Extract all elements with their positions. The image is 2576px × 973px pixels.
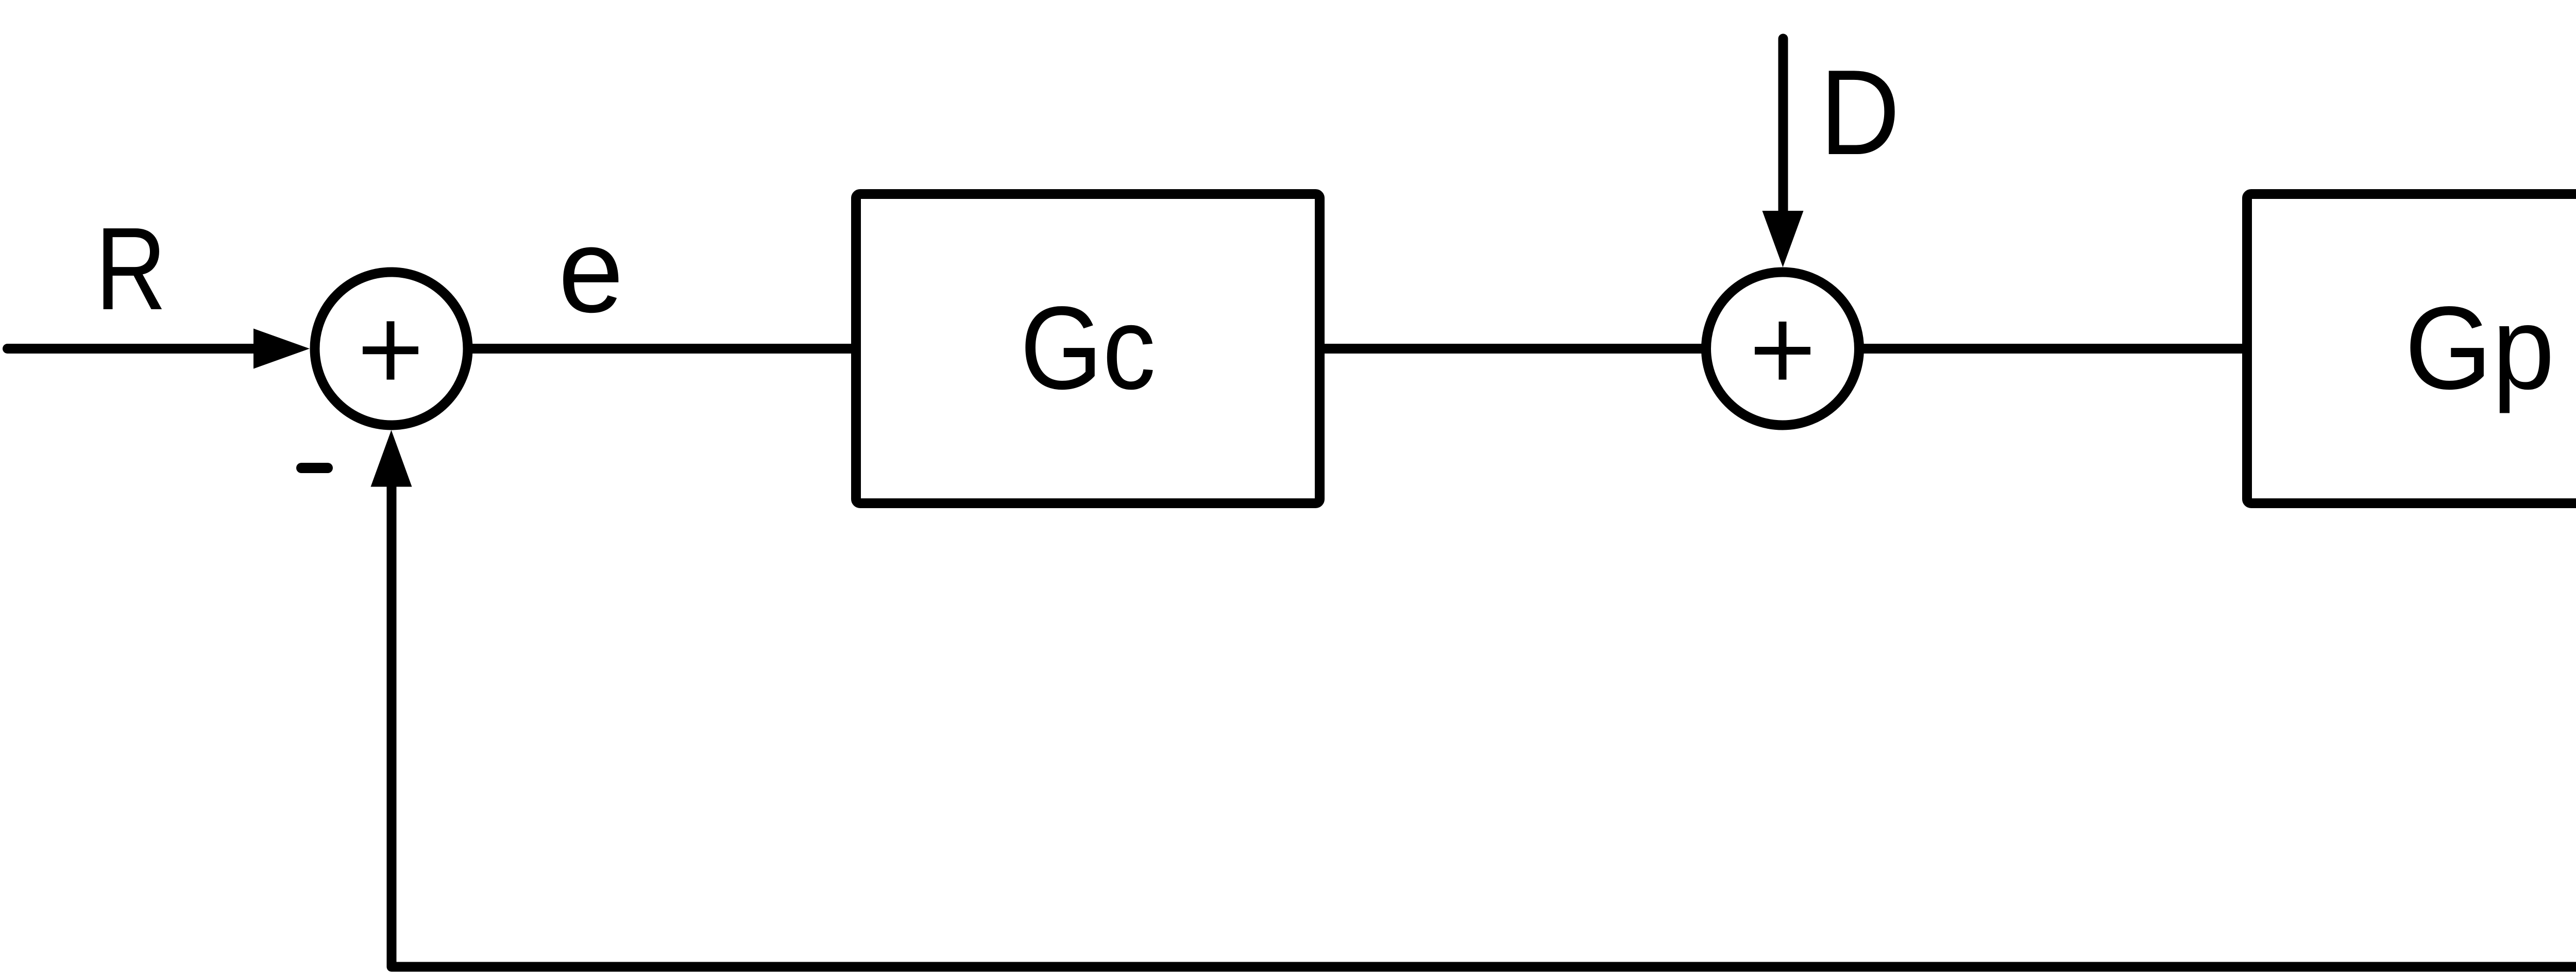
wire: Gc to S2	[1321, 344, 1705, 354]
svg-text:R: R	[95, 204, 166, 334]
summing junction S1	[315, 272, 468, 425]
plus sign in S1	[363, 321, 418, 379]
wire: S2 to Gp	[1860, 344, 2249, 354]
minus sign	[301, 463, 328, 473]
block Gc	[856, 194, 1320, 504]
wire: feedback path from output tap to S1	[392, 349, 2576, 967]
arrowhead into summing junction S1	[253, 329, 310, 369]
arrowhead D into S2	[1762, 211, 1804, 267]
svg-text:Gp: Gp	[2405, 282, 2555, 414]
block Gp	[2247, 194, 2576, 504]
arrowhead feedback into S1	[371, 430, 412, 487]
wire: e line from S1 to Gc	[469, 344, 858, 354]
svg-text:Gc: Gc	[1020, 282, 1156, 414]
wire: D input	[1778, 39, 1788, 212]
wire: input R line	[8, 344, 255, 354]
svg-text:e: e	[558, 204, 624, 338]
plus sign in S2	[1755, 322, 1810, 380]
summing junction S2	[1706, 272, 1859, 425]
svg-text:D: D	[1820, 44, 1900, 180]
